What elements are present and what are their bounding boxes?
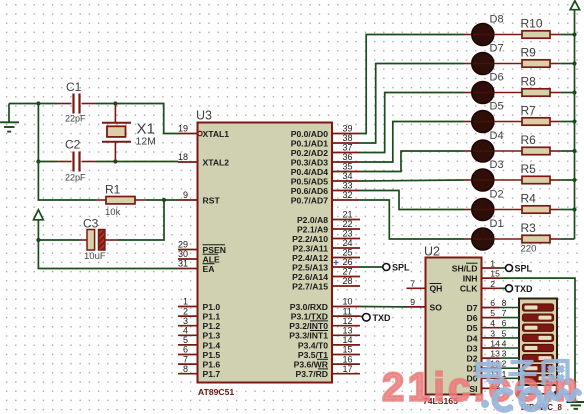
- U2 pin 6 D7: [467, 298, 501, 313]
- svg-text:P1.1: P1.1: [203, 312, 221, 322]
- wire P3.1 to TXD terminal: [360, 315, 363, 318]
- svg-text:P3.3/INT1: P3.3/INT1: [289, 331, 328, 341]
- U3 pin 28 P2.7/A15: [292, 276, 360, 291]
- svg-text:4: 4: [502, 339, 507, 349]
- svg-text:C2: C2: [65, 138, 81, 152]
- wire gnd horizontal to C1 row: [9, 103, 57, 105]
- svg-text:R6: R6: [521, 133, 537, 147]
- svg-text:13: 13: [490, 349, 500, 359]
- LED D7: [464, 43, 522, 75]
- wire U2 D2 to switch: [500, 357, 519, 359]
- terminal SPL right: [506, 265, 513, 272]
- U2 pin 7 QH: [407, 279, 443, 294]
- svg-text:C1: C1: [66, 80, 82, 94]
- crystal X1 12M: [102, 104, 156, 162]
- wire U2 D6 to switch: [500, 317, 519, 319]
- LED D4: [464, 130, 522, 162]
- wire R6 to VCC rail: [560, 150, 574, 152]
- svg-text:D1: D1: [490, 218, 504, 230]
- wire R1 to RST: [145, 199, 178, 201]
- svg-text:D7: D7: [490, 43, 504, 55]
- IC U2 74LS165 body: [423, 245, 482, 407]
- svg-text:9: 9: [183, 190, 188, 200]
- wire P0.7 to D1: [360, 200, 464, 239]
- svg-text:P1.5: P1.5: [203, 350, 221, 360]
- svg-text:P0.5/AD5: P0.5/AD5: [291, 176, 328, 186]
- svg-text:30: 30: [178, 249, 188, 259]
- U3 pin 34 P0.5/AD5: [291, 171, 360, 186]
- U2 pin 11 D0: [467, 369, 501, 384]
- wire P0.1 to D7: [360, 64, 464, 144]
- U2 pin 4 D5: [467, 318, 501, 333]
- svg-text:4: 4: [183, 326, 188, 336]
- svg-text:12: 12: [343, 316, 353, 326]
- svg-text:P1.6: P1.6: [203, 360, 221, 370]
- DIP switch common pin left: [518, 385, 520, 394]
- node X1 top: [113, 101, 117, 105]
- U3 XTAL1 pin ring: [198, 131, 202, 135]
- U2 pin 9 SO: [407, 297, 443, 312]
- svg-text:ALE: ALE: [203, 254, 220, 264]
- wire U2 D0 to switch: [500, 377, 519, 379]
- svg-text:9: 9: [410, 297, 415, 307]
- svg-text:2: 2: [490, 279, 495, 289]
- U3 pin 13 P3.3/INT1: [289, 326, 360, 341]
- U3 pin 8 P1.7: [178, 364, 220, 379]
- U3 pin 17 P3.7/RD: [296, 364, 360, 379]
- U2 pin 2 CLK: [460, 279, 500, 294]
- svg-text:AT89C51: AT89C51: [198, 387, 234, 397]
- resistor R8: [521, 75, 561, 97]
- DIP switch common pin right: [556, 385, 558, 394]
- svg-text:D4: D4: [467, 333, 478, 343]
- U3 pin 19 XTAL1: [178, 124, 229, 139]
- node X1 bottom: [113, 159, 117, 163]
- wire R4 to VCC rail: [560, 209, 574, 211]
- U3 pin 24 P2.3/A11: [293, 238, 360, 253]
- svg-text:35: 35: [343, 162, 353, 172]
- wire R8 to VCC rail: [560, 92, 574, 94]
- capacitor C1: [57, 80, 96, 124]
- svg-text:P2.1/A9: P2.1/A9: [297, 224, 328, 234]
- wire RST node down to C3: [116, 200, 164, 240]
- svg-text:R3: R3: [521, 221, 537, 235]
- svg-text:18: 18: [178, 152, 188, 162]
- wire U2 D1 to switch: [500, 367, 519, 369]
- resistor R9: [521, 46, 561, 68]
- wire VCC stem to EA: [38, 220, 178, 269]
- U3 pin 36 P0.3/AD3: [291, 152, 360, 167]
- svg-text:D3: D3: [490, 159, 504, 171]
- node rail: [572, 61, 576, 65]
- terminal SPL left: [383, 264, 390, 271]
- svg-text:13: 13: [343, 326, 353, 336]
- svg-text:24: 24: [343, 238, 353, 248]
- svg-text:P2.7/A15: P2.7/A15: [292, 281, 328, 291]
- svg-text:8: 8: [183, 364, 188, 374]
- node RST/C3: [162, 198, 166, 202]
- U3 pin 29 PSEN: [178, 240, 226, 255]
- svg-text:1: 1: [183, 297, 188, 307]
- svg-text:25: 25: [343, 248, 353, 258]
- wire U2 D3 to switch: [500, 347, 519, 349]
- svg-text:SH/LD: SH/LD: [452, 263, 478, 273]
- node VCC/C3: [36, 238, 40, 242]
- wire P0.5 to D3: [360, 180, 464, 181]
- U3 pin 6 P1.5: [178, 345, 220, 360]
- svg-text:D2: D2: [490, 189, 504, 201]
- svg-text:14: 14: [490, 339, 500, 349]
- svg-text:P0.7/AD7: P0.7/AD7: [291, 195, 328, 205]
- svg-text:P0.4/AD4: P0.4/AD4: [291, 167, 328, 177]
- U3 pin 27 P2.6/A14: [292, 267, 360, 282]
- svg-text:10: 10: [343, 297, 353, 307]
- LED D2: [464, 189, 522, 221]
- svg-text:P3.5/T1: P3.5/T1: [298, 350, 328, 360]
- svg-text:P3.6/WR: P3.6/WR: [294, 360, 329, 370]
- U3 pin 4 P1.3: [178, 326, 220, 341]
- svg-text:P1.3: P1.3: [203, 331, 221, 341]
- wire R7 to VCC rail: [560, 121, 574, 123]
- DIP switch element 8: [523, 375, 554, 382]
- svg-text:P2.6/A14: P2.6/A14: [292, 272, 328, 282]
- svg-text:220: 220: [521, 244, 537, 255]
- IC U3 AT89C51 body: [196, 109, 332, 398]
- U2 pin 5 D6: [467, 308, 501, 323]
- node gnd/C2 branch: [36, 101, 40, 105]
- wire P3.0 to U2 SO: [360, 306, 407, 308]
- svg-text:5: 5: [183, 335, 188, 345]
- U3 pin 1 P1.0: [178, 297, 220, 312]
- U3 pin 9 RST: [178, 190, 220, 205]
- U2 pin 15 INH: [463, 269, 500, 284]
- svg-text:23: 23: [343, 229, 353, 239]
- svg-text:SPL: SPL: [515, 264, 533, 274]
- U3 pin 38 P0.1/AD1: [291, 133, 360, 148]
- node rail: [572, 90, 576, 94]
- U2 pin 13 D2: [467, 349, 501, 364]
- wire INH to ground rail: [500, 278, 575, 402]
- svg-text:R5: R5: [521, 162, 537, 176]
- wire U2 D7 to switch: [500, 307, 519, 309]
- U2 pin 10 SI: [469, 379, 500, 394]
- power terminal VCC arrow: [34, 210, 44, 220]
- resistor R6: [521, 133, 561, 155]
- wire U2 D4 to switch: [500, 337, 519, 339]
- wire CLK to TXD terminal: [500, 287, 506, 289]
- U3 pin 16 P3.6/WR: [294, 354, 360, 369]
- wire P2.5 to SPL terminal: [360, 266, 383, 268]
- wire C2 left branch: [38, 161, 57, 163]
- LED D1: [464, 218, 522, 250]
- svg-text:3: 3: [502, 349, 507, 359]
- U3 pin 23 P2.2/A10: [292, 229, 360, 244]
- resistor R1 10k: [96, 183, 145, 219]
- svg-text:32: 32: [343, 190, 353, 200]
- svg-text:R9: R9: [521, 46, 537, 60]
- U3 pin 26 P2.5/A13: [292, 257, 360, 272]
- svg-text:R7: R7: [521, 104, 537, 118]
- U3 pin 5 P1.4: [178, 335, 220, 350]
- LED D5: [464, 101, 522, 133]
- wire R10 to VCC rail: [560, 34, 574, 36]
- U3 pin 3 P1.2: [178, 316, 220, 331]
- svg-text:34: 34: [343, 171, 353, 181]
- svg-text:19: 19: [178, 124, 188, 134]
- svg-text:6: 6: [502, 318, 507, 328]
- watermark 21ic.com: [382, 366, 581, 410]
- svg-text:22pF: 22pF: [65, 114, 86, 124]
- svg-text:CLK: CLK: [460, 284, 478, 294]
- svg-text:TXD: TXD: [373, 313, 392, 323]
- capacitor C3 10uF electrolytic: [79, 217, 116, 263]
- svg-text:D5: D5: [467, 323, 478, 333]
- svg-text:R4: R4: [521, 192, 537, 206]
- DIP switch element 1: [523, 304, 554, 311]
- svg-text:31: 31: [178, 259, 188, 269]
- svg-text:P0.0/AD0: P0.0/AD0: [291, 129, 328, 139]
- resistor R3: [521, 221, 561, 255]
- U3 pin 22 P2.1/A9: [297, 219, 360, 234]
- svg-text:15: 15: [343, 345, 353, 355]
- node rail: [572, 119, 576, 123]
- svg-text:21: 21: [343, 210, 353, 220]
- watermark dianzi wang blue glyphs: [478, 359, 568, 388]
- svg-text:8: 8: [502, 298, 507, 308]
- U3 pin 18 XTAL2: [178, 152, 229, 167]
- wire R9 to VCC rail: [560, 63, 574, 65]
- wire P0.2 to D6: [360, 93, 464, 153]
- svg-text:P3.7/RD: P3.7/RD: [296, 369, 328, 379]
- svg-text:D5: D5: [490, 101, 504, 113]
- svg-text:C3: C3: [83, 217, 99, 231]
- svg-text:R10: R10: [521, 17, 543, 31]
- svg-text:3: 3: [183, 316, 188, 326]
- svg-text:39: 39: [343, 124, 353, 134]
- U3 pin 7 P1.6: [178, 354, 220, 369]
- node rail: [572, 207, 576, 211]
- resistor R10: [521, 17, 561, 39]
- svg-text:12M: 12M: [136, 136, 156, 148]
- svg-text:29: 29: [178, 240, 188, 250]
- resistor R4: [521, 192, 561, 214]
- U3 pin 25 P2.4/A12: [292, 248, 360, 263]
- wire SH/LD to SPL terminal: [500, 267, 506, 269]
- wire X1 node to XTAL2: [115, 161, 178, 163]
- svg-text:XTAL2: XTAL2: [203, 157, 230, 167]
- node C2 left: [36, 159, 40, 163]
- svg-text:R1: R1: [105, 183, 121, 197]
- svg-text:4: 4: [490, 318, 495, 328]
- node rail: [572, 178, 576, 182]
- wire P0.3 to D5: [360, 122, 464, 163]
- svg-text:5: 5: [490, 308, 495, 318]
- svg-text:RST: RST: [203, 195, 221, 205]
- svg-text:P1.2: P1.2: [203, 321, 221, 331]
- svg-text:17: 17: [343, 364, 353, 374]
- node rail: [572, 149, 576, 153]
- svg-text:P1.0: P1.0: [203, 302, 221, 312]
- DIP switch element 7: [523, 365, 554, 372]
- watermark blue .com: [481, 390, 579, 410]
- DIP switch element 4: [523, 334, 554, 341]
- svg-text:P0.1/AD1: P0.1/AD1: [291, 138, 328, 148]
- wire P0.0 to D8: [360, 35, 464, 134]
- svg-text:P0.6/AD6: P0.6/AD6: [291, 186, 328, 196]
- svg-text:D4: D4: [490, 130, 504, 142]
- svg-text:XTAL1: XTAL1: [203, 129, 230, 139]
- resistor R7: [521, 104, 561, 126]
- DIP switch element 2: [523, 314, 554, 321]
- U3 pin 31 EA: [178, 259, 215, 274]
- svg-text:15: 15: [490, 269, 500, 279]
- svg-text:11: 11: [343, 306, 352, 316]
- wire DIP commons to ground: [519, 393, 576, 395]
- DIP switch element 5: [523, 344, 554, 351]
- svg-text:D3: D3: [467, 343, 478, 353]
- svg-text:5: 5: [502, 328, 507, 338]
- DIP switch element 6: [523, 355, 554, 362]
- svg-text:D6: D6: [467, 313, 478, 323]
- svg-text:37: 37: [343, 143, 353, 153]
- ground bottom right: [567, 402, 584, 409]
- svg-text:10uF: 10uF: [84, 251, 106, 262]
- U3 pin 35 P0.4/AD4: [291, 162, 360, 177]
- svg-text:38: 38: [343, 133, 353, 143]
- svg-text:SPL: SPL: [392, 263, 410, 273]
- U3 pin 10 P3.0/RXD: [290, 297, 360, 312]
- svg-text:P3.0/RXD: P3.0/RXD: [290, 302, 328, 312]
- marker blue cross pin26: [334, 260, 339, 265]
- DIP switch element 3: [523, 324, 554, 331]
- svg-text:EA: EA: [203, 264, 215, 274]
- LED D8: [464, 14, 522, 46]
- U3 pin 21 P2.0/A8: [297, 210, 360, 225]
- wire X1 node to XTAL1: [115, 104, 178, 134]
- svg-text:TXD: TXD: [515, 284, 534, 294]
- wire C1 to X1 node: [96, 103, 115, 105]
- wire R5 to VCC rail: [560, 179, 574, 181]
- svg-text:36: 36: [343, 152, 353, 162]
- U3 pin 15 P3.5/T1: [298, 345, 360, 360]
- svg-text:2: 2: [183, 306, 188, 316]
- U3 pin 14 P3.4/T0: [298, 335, 360, 350]
- U2 pin 12 D1: [467, 359, 501, 374]
- svg-text:QH: QH: [430, 284, 443, 294]
- svg-text:P3.2/INT0: P3.2/INT0: [289, 321, 328, 331]
- wire gnd rail down to R1: [38, 104, 96, 201]
- DIP switch DIPSWC_8 body: [519, 299, 562, 413]
- power terminal VCC arrow top right: [570, 1, 579, 10]
- U3 pin 12 P3.2/INT0: [289, 316, 360, 331]
- svg-text:SO: SO: [430, 302, 443, 312]
- wire R3 to VCC rail: [560, 238, 574, 240]
- svg-text:D7: D7: [467, 303, 478, 313]
- capacitor C2: [57, 138, 96, 183]
- wire P0.6 to D2: [360, 191, 464, 210]
- svg-text:R8: R8: [521, 75, 537, 89]
- svg-text:6: 6: [490, 298, 495, 308]
- svg-text:PSEN: PSEN: [203, 245, 226, 255]
- svg-text:26: 26: [343, 257, 353, 267]
- svg-text:1: 1: [490, 259, 495, 269]
- U3 pin 11 P3.1/TXD: [291, 306, 360, 321]
- svg-text:P2.4/A12: P2.4/A12: [292, 253, 328, 263]
- wire C2 to X1 bottom node: [96, 161, 115, 163]
- U3 pin 2 P1.1: [178, 306, 220, 321]
- U3 pin 37 P0.2/AD2: [291, 143, 360, 158]
- wire C3 left to VCC stem: [38, 239, 79, 241]
- svg-text:22pF: 22pF: [65, 173, 86, 183]
- svg-text:33: 33: [343, 181, 353, 191]
- svg-text:P2.5/A13: P2.5/A13: [292, 262, 328, 272]
- wire VCC rail: [574, 10, 576, 239]
- svg-text:D6: D6: [490, 72, 504, 84]
- svg-text:6: 6: [183, 345, 188, 355]
- svg-text:P2.0/A8: P2.0/A8: [297, 215, 328, 225]
- svg-text:P1.7: P1.7: [203, 369, 221, 379]
- svg-text:7: 7: [410, 279, 415, 289]
- svg-text:10k: 10k: [105, 207, 121, 218]
- U2 pin 1 SH/LD: [452, 259, 500, 274]
- U3 pin 32 P0.7/AD7: [291, 190, 360, 205]
- resistor R5: [521, 162, 561, 184]
- LED D6: [464, 72, 522, 104]
- svg-text:P2.3/A11: P2.3/A11: [293, 243, 329, 253]
- U2 pin 3 D4: [467, 328, 501, 343]
- svg-text:16: 16: [343, 354, 353, 364]
- svg-text:U2: U2: [424, 245, 440, 259]
- svg-text:P3.4/T0: P3.4/T0: [298, 340, 328, 350]
- terminal TXD right: [506, 285, 513, 292]
- U3 pin 39 P0.0/AD0: [291, 124, 360, 139]
- svg-text:U3: U3: [196, 109, 212, 123]
- svg-text:22: 22: [343, 219, 353, 229]
- U3 pin 30 ALE: [178, 249, 220, 264]
- svg-text:3: 3: [490, 328, 495, 338]
- svg-text:P0.3/AD3: P0.3/AD3: [291, 157, 328, 167]
- svg-text:P0.2/AD2: P0.2/AD2: [291, 148, 328, 158]
- terminal TXD left: [363, 314, 371, 322]
- svg-text:P1.4: P1.4: [203, 340, 221, 350]
- svg-text:7: 7: [183, 354, 188, 364]
- svg-text:INH: INH: [463, 274, 478, 284]
- svg-text:27: 27: [343, 267, 353, 277]
- node rail: [572, 32, 576, 36]
- U2 pin 14 D3: [467, 339, 501, 354]
- svg-text:28: 28: [343, 276, 353, 286]
- svg-text:7: 7: [502, 308, 507, 318]
- wire U2 D5 to switch: [500, 327, 519, 329]
- wire P0.4 to D4: [360, 151, 464, 172]
- svg-text:P2.2/A10: P2.2/A10: [292, 234, 328, 244]
- svg-text:P3.1/TXD: P3.1/TXD: [291, 312, 328, 322]
- ground: [0, 104, 19, 132]
- U3 pin 33 P0.6/AD6: [291, 181, 360, 196]
- svg-text:D8: D8: [490, 14, 504, 26]
- svg-text:14: 14: [343, 335, 353, 345]
- LED D3: [464, 159, 522, 191]
